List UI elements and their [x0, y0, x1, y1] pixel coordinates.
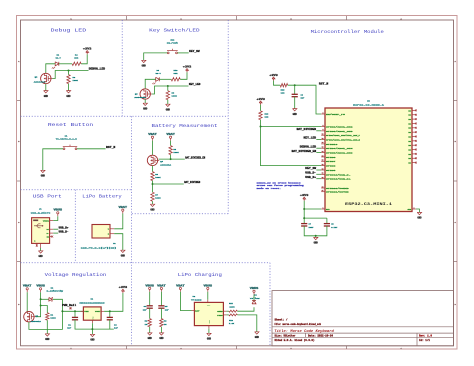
- svg-text:19: 19: [322, 164, 324, 166]
- wire D2 anode: [41, 298, 49, 300]
- resistor R13 10K: [259, 111, 269, 120]
- svg-text:VBAT: VBAT: [119, 206, 128, 209]
- wire gate node to Q1 gate: [36, 306, 41, 317]
- wire VBAT to Q1 source: [26, 292, 28, 311]
- svg-text:100K: 100K: [73, 79, 79, 82]
- ground below J1: [38, 251, 43, 258]
- power VBAT (meas right): [166, 133, 175, 141]
- junction R13 net: [260, 126, 262, 128]
- svg-text:BAT_DIVIDER: BAT_DIVIDER: [297, 128, 317, 131]
- junction C1 top: [74, 310, 76, 312]
- wire PWR_Rail to U1 VIN: [62, 310, 83, 312]
- section divider row3/row4: [21, 262, 271, 264]
- svg-text:+3V3: +3V3: [83, 47, 92, 50]
- wire R11 to D4: [237, 307, 254, 311]
- wire D2 cathode to PWR_Rail: [53, 299, 63, 311]
- ground below Q3: [143, 103, 148, 110]
- wire KEY_SW stub: [316, 169, 321, 171]
- capacitor C3 1uF: [107, 317, 119, 329]
- wire BAT_DIVIDER stub: [316, 130, 321, 132]
- svg-text:VBUS: VBUS: [36, 285, 45, 288]
- wire gnd stub: [315, 236, 317, 238]
- wire J1 D+ to label: [53, 228, 58, 230]
- svg-text:AO3400A: AO3400A: [34, 80, 46, 83]
- transistor Q3 AO3400A: [134, 89, 151, 99]
- junction BAT_DIVIDED: [152, 183, 154, 185]
- resistor R8 100K: [169, 146, 179, 155]
- transistor Q1 AO3401A: [24, 312, 42, 324]
- svg-text:100K: 100K: [50, 317, 56, 320]
- wire C1 branch: [74, 311, 76, 317]
- note DEBUG_SW gpio9: [257, 181, 305, 190]
- wire USB_D+ stub: [316, 178, 321, 180]
- charger U2 TP4056 body: [194, 302, 223, 325]
- svg-text:20: 20: [322, 168, 324, 170]
- svg-text:GND: GND: [143, 107, 148, 110]
- svg-text:9: 9: [323, 129, 324, 131]
- svg-text:LiPo Battery: LiPo Battery: [82, 193, 122, 199]
- U3 GND pin: [408, 207, 416, 211]
- junction gnd rail: [91, 328, 93, 330]
- svg-text:GPIO7: GPIO7: [326, 160, 337, 163]
- svg-text:Battery Measurement: Battery Measurement: [152, 123, 218, 129]
- wire U2 GND to ground: [208, 329, 210, 334]
- capacitor C5 1uF: [158, 305, 169, 312]
- power +3V3 (gpio pullup): [256, 98, 265, 105]
- wire VBAT to R8: [170, 141, 172, 146]
- capacitor C4 1uF: [143, 305, 153, 312]
- svg-text:18: 18: [322, 160, 324, 162]
- resistor R6 100K: [151, 172, 161, 181]
- svg-text:PWR_Rail: PWR_Rail: [62, 304, 77, 307]
- led D1: [52, 54, 62, 69]
- power VBAT (vreg): [23, 285, 32, 293]
- svg-text:GPIO2/ADC1_CH2: GPIO2/ADC1_CH2: [326, 125, 354, 128]
- resistor R2 1M (chg): [145, 319, 152, 327]
- U2 pin stubs: [192, 300, 227, 329]
- wire R8 to gate junction: [170, 155, 172, 160]
- wire R3b to ground: [160, 327, 162, 333]
- U3 3V3 pin: [321, 207, 330, 211]
- section divider Debug/Key: [121, 20, 123, 116]
- wire KEY_LED stub: [316, 139, 321, 141]
- svg-text:GPIO19/USB_D+: GPIO19/USB_D+: [326, 178, 352, 181]
- diode D2 D_Schottky: [47, 286, 64, 301]
- svg-text:EN/CHIP_PU: EN/CHIP_PU: [326, 113, 346, 116]
- svg-text:+3V3: +3V3: [300, 194, 309, 197]
- svg-text:BAT_DIVIDED: BAT_DIVIDED: [184, 181, 200, 184]
- U3 left pins: [321, 112, 361, 193]
- wire R1 to ground: [46, 320, 48, 334]
- svg-text:1uF: 1uF: [143, 308, 148, 311]
- wire U2 PROG to R12: [226, 314, 228, 316]
- wire gate junction to R2: [68, 71, 70, 75]
- svg-text:GND: GND: [150, 208, 155, 211]
- svg-text:AO3401A: AO3401A: [160, 163, 172, 166]
- wire D3 cathode to R10: [159, 78, 171, 80]
- power VBUS (usb): [54, 209, 63, 217]
- wire R6 to divider junction: [152, 181, 154, 193]
- svg-text:VBUS: VBUS: [145, 284, 154, 287]
- svg-text:GPIO1/ADC1_CH1/XTAL_32K_N: GPIO1/ADC1_CH1/XTAL_32K_N: [326, 138, 361, 141]
- svg-text:Sheet: /: Sheet: /: [275, 319, 289, 322]
- svg-text:VBAT: VBAT: [176, 284, 185, 287]
- section divider Reset/USB: [21, 189, 132, 191]
- svg-text:TS-1187A-B-A-B: TS-1187A-B-A-B: [56, 138, 78, 141]
- svg-text:Date: 2022-10-24: Date: 2022-10-24: [308, 335, 334, 338]
- led D3: [152, 69, 161, 84]
- svg-text:8: 8: [323, 112, 324, 114]
- wire BAT_DIVIDER_EN stub: [316, 152, 321, 154]
- svg-text:10uF: 10uF: [309, 226, 315, 229]
- svg-text:22: 22: [322, 177, 324, 179]
- switch S1 TS-1187A-B-A-B: [56, 135, 78, 150]
- junction R8 gate: [170, 158, 172, 160]
- wire Q2 source to ground: [45, 84, 47, 91]
- svg-text:15: 15: [322, 155, 324, 157]
- svg-text:GPIO6: GPIO6: [326, 156, 337, 159]
- wire Q3 gate to net: [152, 86, 189, 94]
- svg-text:+3V3: +3V3: [119, 286, 128, 289]
- junction VBUS/D2: [40, 298, 42, 300]
- svg-text:VBAT: VBAT: [23, 285, 32, 288]
- wire gate junction to R9: [167, 86, 169, 91]
- wire D1 cathode to R4: [59, 63, 72, 65]
- svg-text:LiPo Charging: LiPo Charging: [178, 272, 222, 278]
- power VBAT (meas left): [148, 133, 157, 141]
- wire caps to ground: [304, 226, 327, 236]
- svg-text:GND: GND: [66, 95, 71, 98]
- svg-text:GPIO9: GPIO9: [326, 169, 337, 172]
- wire U3 GND to ground: [416, 209, 420, 212]
- led D4 Yellow: [250, 294, 260, 304]
- junction gnd mid: [315, 235, 317, 237]
- svg-text:GPIO0/ADC1_CH0/XTAL_32K_P: GPIO0/ADC1_CH0/XTAL_32K_P: [326, 134, 361, 137]
- svg-text:100K: 100K: [172, 94, 178, 97]
- svg-text:GND: GND: [166, 108, 171, 111]
- J1 pin stubs: [36, 221, 53, 249]
- wire C4 to R2b: [149, 308, 151, 318]
- wire +3V3 to R4: [81, 54, 87, 64]
- U3 right NC pins: [408, 109, 416, 164]
- power VBUS (chg vcc): [204, 284, 213, 292]
- ground below Q2: [44, 91, 49, 98]
- wire Q3 source to ground: [144, 99, 146, 103]
- svg-text:ESP32-C3-MINI-1: ESP32-C3-MINI-1: [353, 103, 385, 106]
- svg-text:GPIO8: GPIO8: [326, 165, 337, 168]
- svg-text:Rev: 1.0: Rev: 1.0: [419, 335, 433, 338]
- ground below S1: [41, 170, 46, 177]
- wire Q2 gate to net: [53, 71, 89, 79]
- svg-text:WS-Y: WS-Y: [156, 72, 162, 75]
- section divider BatMeas bottom: [132, 213, 228, 215]
- svg-text:GND: GND: [39, 255, 44, 258]
- wire DEBUG_LED stub: [316, 147, 321, 149]
- junction C6 top: [294, 84, 296, 86]
- svg-text:GND: GND: [159, 337, 164, 340]
- ground below U3: [417, 212, 422, 219]
- J2 pin stubs: [110, 229, 114, 234]
- svg-text:Size: USLetter: Size: USLetter: [275, 335, 297, 338]
- wire D1 anode to Q2 drain: [46, 64, 55, 74]
- svg-text:WS-Y: WS-Y: [56, 57, 62, 60]
- svg-text:1uF: 1uF: [165, 308, 170, 311]
- wire Q4 gate to BAT_DIVIDER_EN: [159, 158, 185, 160]
- U1 pin names: [84, 310, 101, 320]
- resistor R2 100K: [67, 75, 79, 84]
- power VBUS (chg cap): [145, 284, 154, 292]
- regulator U1 body: [83, 307, 101, 320]
- svg-text:TP4056: TP4056: [191, 299, 202, 302]
- transistor Q2 AO3400A: [34, 73, 53, 83]
- wire Q1 drain to PWR_Rail: [29, 311, 63, 329]
- capacitor C7 10uF: [301, 223, 314, 229]
- svg-text:GPIO20/U0RXD: GPIO20/U0RXD: [326, 187, 350, 190]
- svg-text:1uF: 1uF: [114, 327, 119, 330]
- wire SW2 to KEY_SW label: [177, 52, 188, 54]
- resistor R15 10K: [280, 84, 288, 95]
- resistor R4 33R: [72, 54, 81, 66]
- power +3V3 (debug): [83, 47, 92, 54]
- power VBAT (chg cap): [157, 284, 166, 292]
- wire VBUS down to D2 node: [40, 292, 42, 305]
- junction R9/gate: [167, 85, 169, 87]
- svg-text:KEY_LED: KEY_LED: [189, 83, 201, 86]
- svg-text:GND: GND: [121, 254, 126, 257]
- junction gate node: [40, 305, 42, 307]
- svg-text:Key Switch/LED: Key Switch/LED: [149, 27, 200, 33]
- junction caps: [303, 217, 305, 219]
- section divider USB/LiPoBatt: [74, 190, 76, 263]
- svg-text:33R: 33R: [174, 72, 179, 75]
- section divider Key+BatMeas/MCU: [227, 20, 229, 214]
- svg-text:USB_D+: USB_D+: [59, 226, 70, 229]
- svg-text:BAT_DIVIDER_EN: BAT_DIVIDER_EN: [292, 150, 317, 153]
- wire C1 to gnd rail: [75, 320, 114, 329]
- transistor Q4 AO3401A: [147, 155, 172, 166]
- svg-text:GPIO4/ADC1_CH4: GPIO4/ADC1_CH4: [326, 147, 354, 150]
- ground below U1: [90, 334, 95, 341]
- svg-text:+3V3: +3V3: [183, 65, 192, 68]
- capacitor C1 1uF: [67, 317, 78, 329]
- resistor R9 100K: [166, 91, 177, 100]
- svg-text:5: 5: [323, 125, 324, 127]
- svg-text:+3V3: +3V3: [269, 74, 278, 77]
- svg-text:VBAT: VBAT: [166, 133, 175, 136]
- wire U1 VOUT to +3V3: [104, 293, 123, 311]
- resistor R11 220R: [229, 302, 238, 312]
- U1 pin stubs: [81, 311, 105, 323]
- svg-text:220R: 220R: [229, 305, 235, 308]
- svg-text:DEBUG_LED: DEBUG_LED: [300, 145, 317, 148]
- svg-text:VBAT: VBAT: [148, 133, 157, 136]
- svg-text:GPIO3/ADC1_CH3: GPIO3/ADC1_CH3: [326, 130, 354, 133]
- svg-text:SW_Push: SW_Push: [167, 41, 179, 44]
- svg-text:100K: 100K: [173, 151, 179, 154]
- wire U1 GND to rail: [91, 323, 93, 334]
- junction R2/gate: [68, 70, 70, 72]
- wire J1 D- to label: [53, 232, 58, 234]
- svg-text:1.2K: 1.2K: [229, 322, 235, 325]
- power VBUS (vreg): [36, 285, 45, 293]
- connector J1 USB_B_Micro body: [32, 218, 50, 244]
- wire R13 net to GPIO8: [261, 127, 322, 166]
- svg-text:+3V3: +3V3: [256, 98, 265, 101]
- wire R12 to ground: [237, 315, 256, 332]
- power +3V3 (key): [183, 65, 192, 72]
- svg-text:100K: 100K: [155, 197, 161, 200]
- svg-text:GND: GND: [41, 175, 46, 178]
- switch SW2 SW_Push: [167, 38, 179, 54]
- svg-text:27: 27: [322, 190, 324, 192]
- ground below C4 branch: [148, 333, 153, 340]
- svg-text:GND: GND: [148, 337, 153, 340]
- svg-text:26: 26: [322, 186, 324, 188]
- svg-text:KEY_LED: KEY_LED: [304, 137, 317, 140]
- wire J1 VBUS to power: [53, 216, 58, 220]
- svg-text:USB_D-: USB_D-: [59, 230, 70, 233]
- svg-text:BAT_DIVIDER_EN: BAT_DIVIDER_EN: [185, 156, 205, 159]
- capacitor C6 1uF: [292, 93, 305, 99]
- wire D3 anode to Q3 drain: [145, 79, 156, 89]
- svg-text:13: 13: [322, 147, 324, 149]
- svg-text:KEY_SW: KEY_SW: [305, 167, 316, 170]
- wire +3V3 to R15: [274, 81, 281, 86]
- wire gate node to R1: [41, 306, 48, 313]
- wire R15 to RST_N node: [288, 85, 322, 114]
- wire C3 to gnd rail: [109, 320, 111, 329]
- svg-text:10: 10: [322, 138, 324, 140]
- ic U3 ESP32-C3-MINI-1 body: [325, 108, 412, 212]
- wire C8 branch: [326, 218, 328, 224]
- svg-text:VBUS: VBUS: [54, 209, 63, 212]
- svg-text:RST_N: RST_N: [106, 146, 116, 149]
- wire VBUS to C4: [149, 292, 151, 306]
- svg-text:Title: Morse Code Keyboard: Title: Morse Code Keyboard: [274, 329, 335, 333]
- J2 pin names: [108, 228, 110, 236]
- svg-text:GPIO5/ADC2_CH0: GPIO5/ADC2_CH0: [326, 152, 354, 155]
- wire SW2 to ground: [144, 53, 168, 60]
- section divider Charging right: [269, 263, 271, 346]
- svg-text:GPIO18/USB_D-: GPIO18/USB_D-: [326, 173, 351, 176]
- svg-text:21: 21: [322, 173, 324, 175]
- junction 3v3 node: [303, 208, 305, 210]
- svg-text:D_Schottky: D_Schottky: [47, 290, 64, 293]
- wire S1 to ground: [43, 149, 63, 171]
- resistor R1 100K: [46, 313, 57, 321]
- ground below R7: [150, 204, 155, 211]
- svg-text:GND: GND: [90, 339, 95, 342]
- svg-text:Voltage Regulation: Voltage Regulation: [45, 272, 107, 278]
- svg-text:100K: 100K: [155, 176, 161, 179]
- ground below R9: [166, 104, 171, 111]
- power VBAT (chg): [176, 284, 185, 292]
- ground below R12: [255, 332, 260, 339]
- wire S1 to RST_N: [77, 148, 106, 150]
- svg-text:Id: 1/1: Id: 1/1: [419, 339, 431, 342]
- section divider col mid: [131, 116, 133, 345]
- power +3V3 (rst pullup): [269, 74, 278, 81]
- svg-text:Microcontroller Module: Microcontroller Module: [311, 29, 384, 35]
- svg-text:USB_D-: USB_D-: [305, 172, 316, 175]
- ground below U2: [207, 333, 212, 340]
- title block: [272, 291, 454, 346]
- svg-text:GND: GND: [142, 65, 147, 68]
- svg-text:GND: GND: [45, 338, 50, 341]
- svg-text:mode on reset.: mode on reset.: [257, 187, 282, 190]
- svg-text:File: morse-code-keyboard.kica: File: morse-code-keyboard.kicad_sch: [275, 323, 322, 326]
- svg-text:USB_D+: USB_D+: [305, 176, 316, 179]
- wire C6 to ground: [294, 97, 296, 109]
- svg-text:GND: GND: [207, 338, 212, 341]
- svg-text:KiCad E.D.A. kicad (6.0.8): KiCad E.D.A. kicad (6.0.8): [275, 339, 315, 342]
- wire VBAT to C5: [160, 292, 162, 306]
- J1 pin names: [34, 219, 50, 242]
- svg-text:GND: GND: [255, 336, 260, 339]
- svg-text:S2B-PH-K-S(LF)(SN): S2B-PH-K-S(LF)(SN): [81, 246, 117, 249]
- wire C6 branch: [294, 85, 296, 94]
- svg-text:AO3400A: AO3400A: [134, 96, 146, 99]
- svg-text:1uF: 1uF: [67, 327, 72, 330]
- ERC mark: [70, 307, 72, 309]
- wire C7 branch: [303, 218, 305, 224]
- junction C3 top: [109, 310, 111, 312]
- svg-text:GND: GND: [44, 95, 49, 98]
- ground below C6: [293, 109, 298, 116]
- capacitor C8 0.1uF: [324, 223, 338, 229]
- J1 usb glyph: [33, 220, 43, 228]
- wire U2 CHRG to R11: [226, 310, 228, 312]
- wire C5 to R3b: [160, 308, 162, 318]
- svg-text:2: 2: [414, 207, 415, 209]
- svg-text:VBAT: VBAT: [157, 284, 166, 287]
- wire +3V3 to U3 3V3: [304, 201, 321, 209]
- svg-text:VBUS: VBUS: [204, 284, 213, 287]
- power +3V3 (mcu): [300, 194, 309, 201]
- resistor R7 100K: [151, 192, 161, 201]
- wire D4 to VBUS: [253, 295, 255, 301]
- wire 3v3 to caps: [304, 209, 327, 218]
- svg-text:USB_B_Micro: USB_B_Micro: [31, 211, 51, 214]
- wire +3V3 to R10: [180, 72, 187, 79]
- ground below SW2: [142, 60, 147, 67]
- ground below J2: [121, 250, 126, 257]
- ground below C5 branch: [159, 333, 164, 340]
- svg-text:0.1uF: 0.1uF: [331, 226, 338, 229]
- svg-text:DEBUG_LED: DEBUG_LED: [89, 68, 106, 71]
- ground below R2: [66, 91, 71, 98]
- resistor R3 1M (chg): [160, 319, 167, 327]
- svg-text:VBUS: VBUS: [250, 287, 259, 290]
- power VBAT (lipo): [119, 206, 128, 214]
- ground below caps: [314, 237, 319, 244]
- U2 pin names: [195, 304, 223, 324]
- svg-text:Debug LED: Debug LED: [51, 27, 87, 33]
- svg-text:12: 12: [322, 134, 324, 136]
- wire R2 to ground: [68, 84, 70, 91]
- svg-text:GND: GND: [417, 217, 422, 220]
- svg-text:ESP32-C3-MINI-1: ESP32-C3-MINI-1: [345, 203, 392, 207]
- wire divider to BAT_DIVIDED label: [153, 183, 184, 185]
- svg-text:Reset Button: Reset Button: [48, 122, 94, 128]
- svg-text:16: 16: [322, 142, 324, 144]
- svg-text:GPIO10: GPIO10: [326, 143, 339, 146]
- svg-text:AO3401A: AO3401A: [31, 320, 42, 323]
- wire USB_D- stub: [316, 173, 321, 175]
- power VBUS (chg led): [250, 287, 259, 295]
- wire R13 to GPIO2: [261, 120, 322, 127]
- wire C3 branch: [109, 311, 111, 317]
